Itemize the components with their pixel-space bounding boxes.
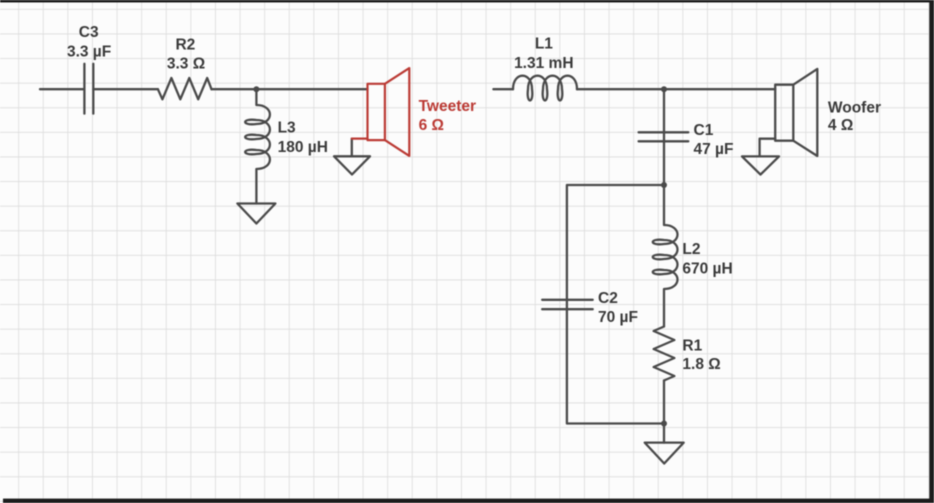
node B (L1/C1/woofer)	[661, 86, 667, 92]
wire R1 to node3	[663, 381, 665, 424]
capacitor C1	[639, 132, 689, 141]
resistor R1	[654, 327, 675, 381]
svg-text:70 µF: 70 µF	[598, 309, 638, 326]
inductor L2	[653, 185, 678, 327]
svg-text:6 Ω: 6 Ω	[419, 117, 444, 134]
wire L1 to woofer	[577, 88, 775, 90]
wire input left	[40, 88, 84, 90]
window frame top	[0, 0, 934, 2]
svg-text:47 µF: 47 µF	[694, 141, 734, 158]
svg-text:C3: C3	[79, 24, 99, 41]
capacitor C3	[84, 64, 93, 114]
wire input right	[493, 88, 513, 90]
wire C3 to R2	[93, 88, 158, 90]
svg-text:1.8 Ω: 1.8 Ω	[682, 356, 720, 373]
svg-text:180 µH: 180 µH	[278, 139, 328, 156]
wire node to C1 to node2	[663, 89, 665, 185]
svg-text:L1: L1	[535, 36, 553, 53]
speaker woofer	[760, 69, 818, 156]
wire node2 left branch	[567, 185, 664, 424]
ground (below L3)	[237, 204, 275, 224]
node D (R1/C2/ground)	[661, 421, 667, 427]
speaker tweeter (red)	[352, 68, 410, 156]
wire tweeter to ground	[351, 139, 353, 157]
svg-text:L3: L3	[278, 120, 296, 137]
svg-text:C1: C1	[694, 122, 714, 139]
wire R2 to tweeter	[212, 88, 368, 90]
capacitor C2	[542, 300, 593, 309]
svg-text:3.3 µF: 3.3 µF	[67, 43, 111, 60]
svg-text:L2: L2	[682, 241, 700, 258]
svg-text:1.31 mH: 1.31 mH	[514, 55, 573, 72]
svg-text:R1: R1	[682, 337, 702, 354]
ground (tweeter)	[334, 156, 370, 174]
inductor L3	[245, 89, 270, 203]
svg-text:670 µH: 670 µH	[682, 260, 732, 277]
node A (R2/L3/tweeter)	[253, 86, 259, 92]
svg-text:4 Ω: 4 Ω	[828, 117, 853, 134]
svg-text:Tweeter: Tweeter	[419, 98, 476, 115]
svg-text:R2: R2	[175, 36, 195, 53]
ground (node3)	[645, 443, 684, 464]
svg-text:Woofer: Woofer	[828, 100, 881, 117]
svg-text:C2: C2	[598, 290, 618, 307]
window frame right	[929, 0, 934, 503]
ground (woofer)	[742, 156, 779, 174]
inductor L1	[513, 76, 577, 101]
window frame bottom	[3, 499, 934, 503]
resistor R2	[158, 78, 212, 99]
node C (C1/C2/L2)	[661, 182, 667, 188]
svg-text:3.3 Ω: 3.3 Ω	[167, 55, 205, 72]
wire node3 to ground	[663, 424, 665, 443]
